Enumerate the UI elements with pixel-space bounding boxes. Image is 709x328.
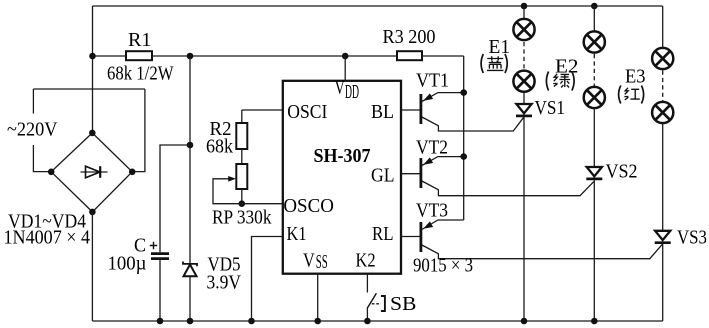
wire C branch xyxy=(160,145,190,252)
wire RP to OSCO xyxy=(241,189,243,204)
svg-text:RP 330k: RP 330k xyxy=(212,207,272,229)
wire VS1 cathode to ground xyxy=(523,117,525,321)
svg-text:OSCO: OSCO xyxy=(283,195,334,217)
wire RL pin to VT3 base xyxy=(401,236,421,238)
wire 220V loop right xyxy=(132,89,145,172)
wire VS3 cathode to ground xyxy=(662,244,664,321)
lamp E3b xyxy=(652,102,673,123)
wire E1 dashed string xyxy=(523,42,525,70)
svg-text:E1: E1 xyxy=(489,36,511,58)
node E1 top rail junction xyxy=(521,3,528,10)
wire switch SB to ground xyxy=(366,309,368,322)
svg-text:OSCI: OSCI xyxy=(287,101,327,123)
label E3 colour (red) xyxy=(619,86,644,104)
wire VT2 emitter xyxy=(422,157,464,166)
node bridge right vertex xyxy=(129,169,136,176)
wire 220V loop top xyxy=(33,88,144,90)
svg-text:K1: K1 xyxy=(287,223,307,245)
svg-text:E3: E3 xyxy=(625,65,646,87)
svg-text:~220V: ~220V xyxy=(7,119,58,141)
svg-text:3.9V: 3.9V xyxy=(207,272,242,294)
wire R3 to emitter rail xyxy=(422,55,464,57)
op-amp / IC U1 SH-307 box xyxy=(283,81,401,274)
thyristor VS3 xyxy=(655,231,671,243)
node bridge left vertex xyxy=(48,169,55,176)
label E1 colour (blue) xyxy=(481,54,507,73)
wire GL pin to VT2 base xyxy=(401,173,421,175)
svg-text:SH-307: SH-307 xyxy=(314,145,371,167)
wire VT1 collector to VS1 gate xyxy=(422,117,524,131)
svg-text:SS: SS xyxy=(316,251,328,273)
thyristor VS1 xyxy=(516,104,532,116)
wire VT3 emitter xyxy=(422,220,464,230)
wire top rail xyxy=(93,5,663,7)
node SB ground xyxy=(364,318,371,325)
resistor R2 xyxy=(236,123,247,149)
svg-text:R1: R1 xyxy=(128,29,152,51)
zener diode VD5 xyxy=(183,262,197,267)
svg-text:V: V xyxy=(335,76,346,98)
diode symbol inside bridge xyxy=(81,171,108,173)
wire OSCI xyxy=(242,110,283,123)
svg-text:RL: RL xyxy=(372,223,394,245)
wire VSS pin to ground xyxy=(317,274,319,321)
svg-text:K2: K2 xyxy=(356,250,376,272)
transistor VT2 xyxy=(419,158,422,188)
node OSCO junction xyxy=(239,200,246,207)
wire R1 left lead xyxy=(93,55,127,57)
svg-text:VS3: VS3 xyxy=(677,227,707,249)
wire R2 to RP xyxy=(241,149,243,164)
potentiometer RP wiper wire xyxy=(213,179,242,204)
thyristor VS2 xyxy=(586,167,602,179)
lamp E2a xyxy=(584,31,605,52)
svg-text:VS1: VS1 xyxy=(535,97,566,119)
node VDD pin junction xyxy=(342,53,349,60)
wire C to ground rail xyxy=(159,260,161,321)
potentiometer RP 330k xyxy=(236,164,247,189)
resistor R1 xyxy=(126,51,152,60)
potentiometer RP wiper arrow xyxy=(228,176,236,182)
wire K1 xyxy=(252,237,283,322)
VT3 emitter arrow xyxy=(423,221,433,228)
svg-text:BL: BL xyxy=(371,101,394,123)
wire E3 column top xyxy=(662,6,664,48)
svg-text:VS2: VS2 xyxy=(606,161,638,183)
node VS2 ground xyxy=(591,318,598,325)
wire E1 column top xyxy=(523,6,525,19)
wire E3 dashed string xyxy=(662,71,664,102)
node K1 ground xyxy=(248,318,255,325)
node VSS ground xyxy=(314,318,321,325)
transistor VT1 xyxy=(419,94,422,124)
wire E2 dashed string xyxy=(593,54,595,86)
svg-text:VT1: VT1 xyxy=(416,70,449,92)
wire E3 to VS3 xyxy=(662,123,664,230)
svg-text:VT2: VT2 xyxy=(416,137,448,159)
wire bridge bottom to ground rail xyxy=(91,212,93,321)
wire E1 to VS1 xyxy=(523,92,525,104)
wire E2 column top xyxy=(593,6,595,31)
node C branch junction xyxy=(187,142,194,149)
node VD5 ground xyxy=(187,318,194,325)
wire DC+ riser from bridge to top rail xyxy=(92,6,94,133)
wire VT1 emitter xyxy=(422,93,464,102)
svg-text:100µ: 100µ xyxy=(108,253,147,275)
wire bottom rail xyxy=(92,320,662,322)
node VT1 emitter junction xyxy=(460,89,467,96)
svg-text:68k 1/2W: 68k 1/2W xyxy=(107,63,174,85)
wire K2 pin to switch xyxy=(366,274,368,293)
wire BL pin to VT1 base xyxy=(401,109,421,111)
lamp E2b xyxy=(584,87,605,108)
node VDD junction xyxy=(187,53,194,60)
wire VT2 collector to VS2 gate xyxy=(422,181,594,196)
diode bridge VD1~VD4 diamond xyxy=(51,133,132,212)
wire VDD pin stub xyxy=(344,56,346,81)
node bridge top vertex xyxy=(89,130,96,137)
node R1 input junction xyxy=(89,53,96,60)
lamp E1b xyxy=(513,71,534,92)
node VS1 ground xyxy=(521,318,528,325)
label E2 colour (green) xyxy=(546,72,574,91)
wire VS2 cathode to ground xyxy=(593,180,595,321)
wire E2 to VS2 xyxy=(593,108,595,166)
node VT2 emitter junction xyxy=(460,153,467,160)
svg-text:68k: 68k xyxy=(206,136,233,158)
wire VDD branch down xyxy=(189,56,191,263)
VT2 emitter arrow xyxy=(423,157,433,164)
transistor VT3 xyxy=(419,222,422,252)
svg-text:V: V xyxy=(303,249,315,271)
wire VD5 to ground rail xyxy=(189,277,191,322)
node bridge bottom vertex xyxy=(89,209,96,216)
svg-text:9015 × 3: 9015 × 3 xyxy=(413,255,473,277)
wire VT3 collector to VS3 gate xyxy=(422,244,663,259)
wire emitter rail xyxy=(463,56,465,220)
wire R1 to R3 xyxy=(152,55,397,57)
svg-text:SB: SB xyxy=(390,293,417,315)
svg-text:DD: DD xyxy=(345,81,359,103)
resistor R3 xyxy=(397,51,422,60)
VT1 emitter arrow xyxy=(423,93,433,100)
svg-text:R3 200: R3 200 xyxy=(383,26,436,48)
wire OSCO xyxy=(242,203,283,205)
node C ground xyxy=(157,318,164,325)
lamp E1a xyxy=(513,19,534,40)
switch SB xyxy=(367,293,376,308)
node E2 top rail junction xyxy=(591,3,598,10)
lamp E3a xyxy=(652,48,673,69)
svg-text:1N4007 × 4: 1N4007 × 4 xyxy=(4,227,91,249)
svg-text:GL: GL xyxy=(371,165,395,187)
svg-text:VT3: VT3 xyxy=(416,200,448,222)
capacitor C plates xyxy=(151,254,169,259)
wire 220V loop left xyxy=(33,89,51,172)
capacitor C plus sign xyxy=(150,242,157,249)
